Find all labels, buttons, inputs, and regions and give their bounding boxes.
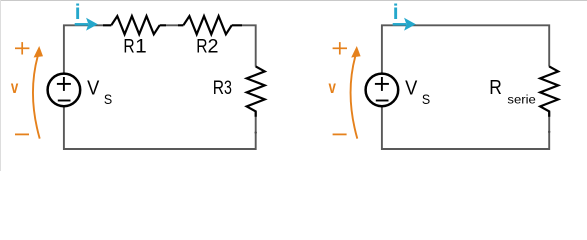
left border line	[0, 0, 2, 171]
black lead out of R2	[232, 24, 242, 26]
wire: below Rserie, bottom, up to source	[382, 106, 549, 149]
wire: below R3, bottom wire, up left to source	[64, 106, 256, 149]
voltage arrowhead	[351, 46, 360, 58]
plus label (orange)	[15, 47, 29, 49]
svg-text:R: R	[123, 37, 134, 58]
minus sign inside source	[58, 100, 71, 102]
svg-text:V: V	[87, 76, 99, 99]
top border line	[0, 0, 587, 2]
svg-text:serie: serie	[507, 95, 535, 107]
svg-text:S: S	[104, 92, 112, 107]
wire: between R1 and R2	[160, 24, 184, 26]
resistor R3	[247, 66, 265, 116]
black lead into R1	[103, 24, 111, 26]
plus sign inside source	[57, 83, 71, 85]
minus label (orange)	[333, 133, 347, 135]
svg-text:3: 3	[224, 78, 232, 99]
svg-text:i: i	[75, 1, 81, 24]
svg-text:R: R	[489, 77, 502, 99]
minus label (orange)	[15, 133, 29, 135]
current arrow i	[75, 23, 88, 26]
wire: R2 to top-right corner, down to R3	[232, 25, 256, 66]
resistor R2	[183, 16, 231, 34]
svg-text:v: v	[11, 77, 19, 97]
wire: loop top and left	[382, 25, 549, 73]
svg-text:S: S	[422, 92, 430, 107]
resistor R1	[111, 16, 159, 34]
svg-text:1: 1	[135, 37, 147, 58]
current arrow i	[393, 23, 406, 26]
black lead into R2	[178, 24, 183, 26]
plus sign inside source	[375, 83, 389, 85]
voltage source V2 circle	[366, 74, 399, 107]
plus label (orange)	[333, 47, 347, 49]
svg-text:R: R	[196, 37, 207, 58]
minus sign inside source	[376, 100, 389, 102]
svg-text:2: 2	[208, 37, 219, 58]
svg-text:V: V	[405, 76, 417, 99]
junction dot on right wire	[255, 131, 257, 133]
voltage source V1 circle	[48, 74, 81, 107]
svg-text:v: v	[329, 77, 337, 97]
svg-text:i: i	[393, 1, 399, 24]
junction dot on right wire	[548, 131, 550, 133]
resistor Rserie	[540, 66, 558, 116]
voltage arrow arc	[33, 56, 40, 138]
black lead out of R1	[160, 24, 166, 26]
voltage arrowhead	[34, 46, 43, 58]
svg-text:R: R	[213, 78, 224, 99]
wire: top segment left (corner to R1)	[64, 25, 111, 73]
voltage arrow arc	[351, 56, 358, 138]
